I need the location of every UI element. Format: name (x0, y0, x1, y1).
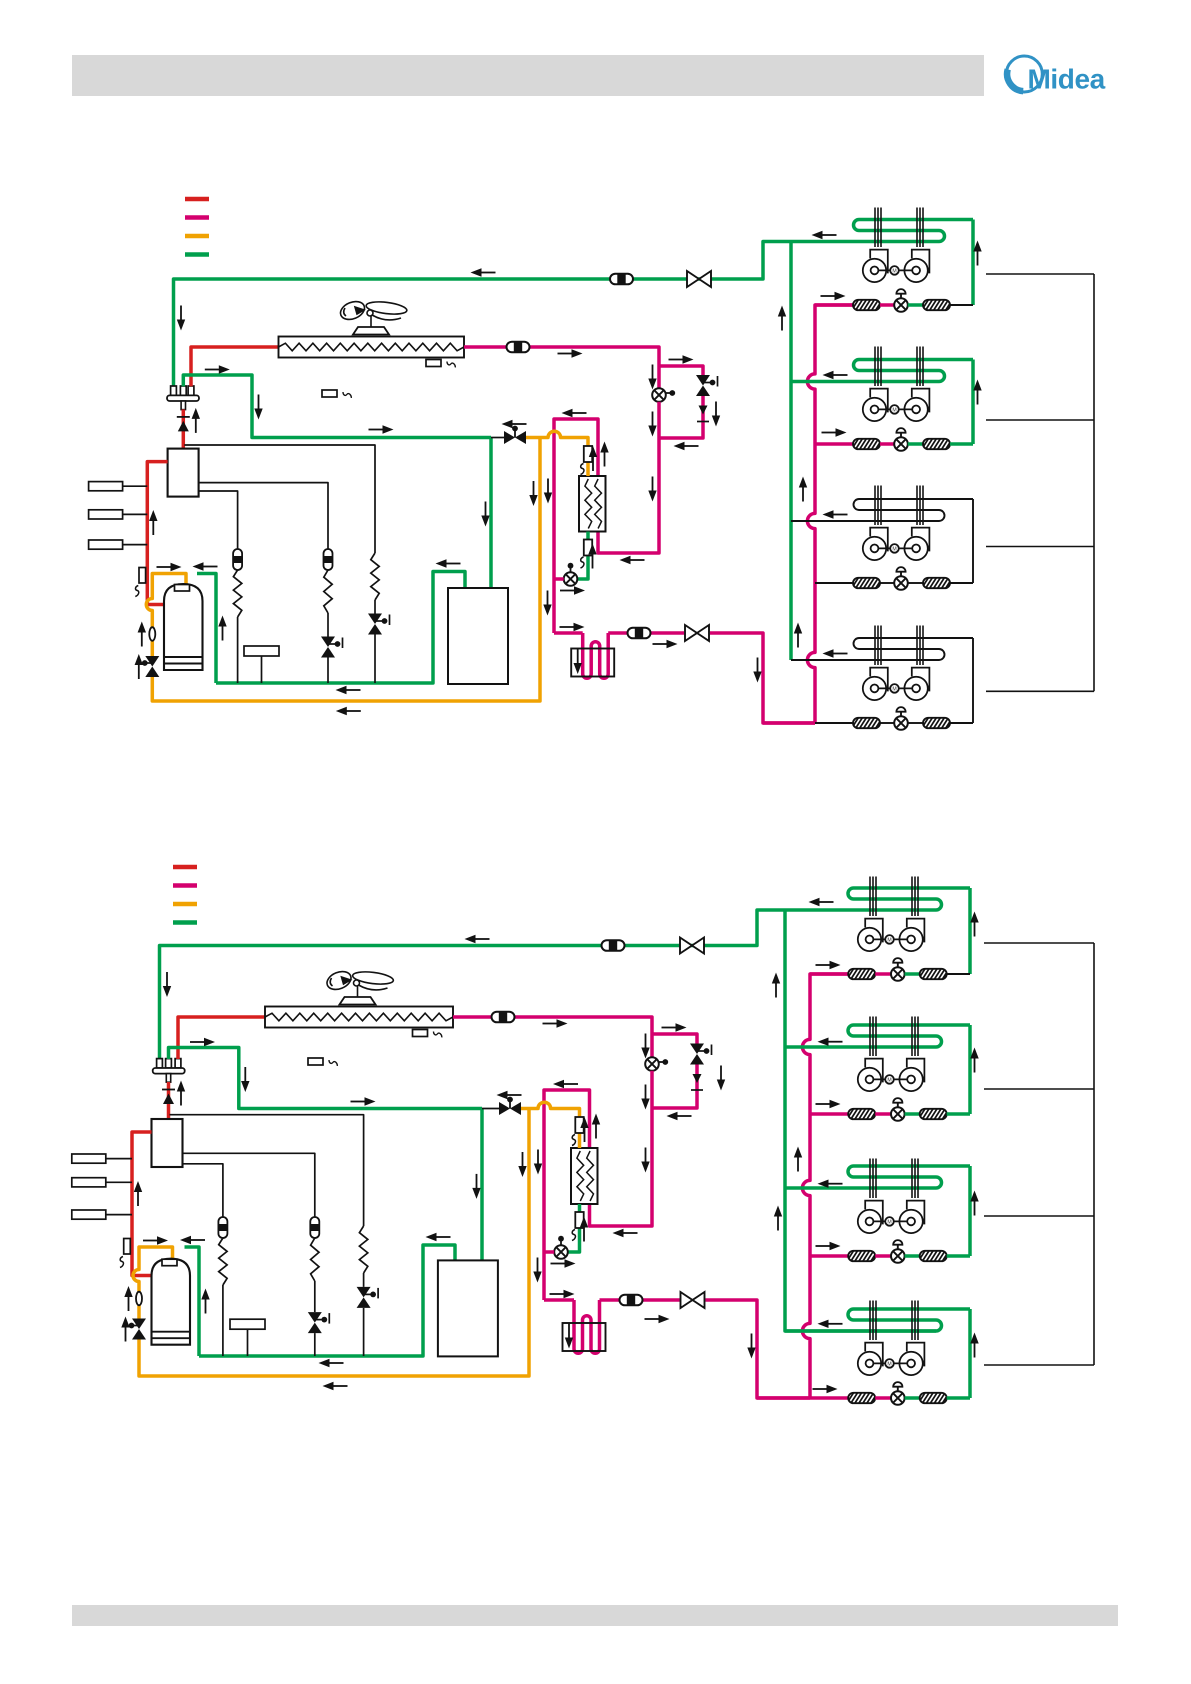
indoor unit 4 branch (815, 722, 853, 724)
wire orange tank (146, 438, 540, 702)
capillary 3 (371, 553, 379, 683)
arrow riser (772, 973, 780, 998)
arrow liquid down (747, 1334, 755, 1359)
wire green bus (199, 1245, 455, 1356)
EEV indoor 2 (894, 428, 908, 451)
indoor unit 4 riser (968, 1309, 972, 1398)
header bar (72, 55, 984, 96)
coil box arrow (574, 649, 582, 674)
wire eev out (598, 402, 659, 553)
oil separator (438, 1260, 498, 1356)
wire compressor left red (132, 1132, 152, 1276)
arrow orange up (589, 446, 597, 471)
EEV indoor 4 (891, 1382, 905, 1405)
wire bypass (652, 1034, 697, 1108)
arrow riser (794, 1147, 802, 1172)
indoor unit 1 shafts (870, 877, 918, 917)
wire discharge red (191, 347, 279, 386)
arrow g2 right (205, 365, 230, 373)
arrow ml down2 (533, 1258, 541, 1283)
arrow bypass right (669, 355, 694, 363)
sensor discharge (120, 1239, 130, 1268)
arrow unit right (822, 428, 847, 436)
arrow orange bus left (323, 1382, 348, 1390)
four-way valve (167, 386, 199, 410)
coil box (571, 649, 614, 677)
svg-text:M: M (892, 687, 896, 693)
arrow g2 down (241, 1067, 249, 1092)
arrow liquid right (543, 1019, 568, 1027)
indoor unit 3 riser (972, 499, 974, 583)
indoor unit 4 coil (791, 638, 973, 660)
arrow valve left (497, 1091, 522, 1099)
footer bar (72, 1605, 1118, 1626)
strainer 2b (918, 1109, 949, 1120)
indoor unit 1 shafts (875, 208, 923, 248)
arrow orange down (529, 481, 537, 506)
sensor condenser (413, 1030, 443, 1038)
wire comp line3 (199, 491, 238, 549)
arrow sep left (426, 1233, 451, 1241)
wire compressor left red (147, 462, 167, 605)
unit 4 boundary (986, 690, 1094, 692)
valve suction (680, 938, 704, 954)
arrow green tank left (193, 562, 218, 570)
indoor unit 2 fans (858, 1059, 925, 1092)
arrow liquid out right (550, 1290, 575, 1298)
indoor unit 4 link2 (905, 1396, 920, 1400)
sensor ambient (322, 390, 352, 398)
arrow green bus left (319, 1359, 344, 1367)
check valve arrow (163, 1094, 174, 1105)
indoor unit 1 link3 (947, 973, 970, 975)
filter green (581, 540, 593, 569)
indoor unit 3 shafts (875, 486, 923, 526)
pressure switch 1 (72, 1154, 132, 1163)
valve capillary 3 (368, 614, 390, 635)
wire comp line3 (183, 1164, 223, 1217)
sensor condenser (426, 360, 456, 368)
solenoid valve bypass (690, 1044, 712, 1065)
arrow sg right (645, 1315, 670, 1323)
valve tank drain (129, 1319, 146, 1340)
indoor unit 1 coil (854, 220, 974, 242)
arrow bypass left (674, 442, 699, 450)
valve capillary 2 (321, 637, 343, 658)
arrow sep left (436, 559, 461, 567)
unit 1 boundary (986, 273, 1094, 275)
wire comp line1 (170, 1115, 364, 1226)
indoor unit 1 fans (863, 250, 930, 282)
wire liquid out (544, 1300, 810, 1398)
arrow green tank left (180, 1236, 205, 1244)
wire eev2 magenta (554, 577, 564, 581)
wire green riser (785, 910, 936, 1331)
indoor unit 2 shafts (875, 347, 923, 387)
wire discharge red (178, 1017, 265, 1059)
arrow liquid down (753, 658, 761, 683)
wire magenta riser (807, 305, 853, 723)
bypass arrowhead (697, 406, 709, 422)
arrow bypass left (667, 1112, 692, 1120)
pressure switch 2 (89, 510, 148, 519)
indoor unit 4 link1 (880, 722, 894, 724)
oil plate (230, 1319, 265, 1356)
arrow filter up (588, 544, 596, 569)
indoor unit 3 link1 (880, 582, 894, 584)
wire liquid out (554, 633, 815, 723)
strainer 1b (918, 969, 949, 980)
indoor unit 3 fans (858, 1201, 925, 1234)
arrow unit up (973, 380, 981, 405)
diagram 2: heating mode piping (72, 867, 1094, 1405)
wire liquid magenta (464, 347, 659, 388)
valve tank drain (142, 656, 159, 677)
indoor unit 3 link2 (905, 1254, 920, 1258)
unit 1 boundary (984, 942, 1094, 944)
arrow sep down (481, 502, 489, 527)
arrow hx up (592, 1114, 600, 1139)
arrow comp red up (134, 1181, 142, 1206)
capillary sight 1 (218, 1217, 227, 1238)
arrow unit left (812, 231, 837, 239)
arrow unit right (821, 292, 846, 300)
sight glass suction (602, 940, 625, 951)
arrow riser (774, 1206, 782, 1231)
wire green service (169, 1048, 483, 1109)
indoor unit 1 link1 (880, 303, 894, 307)
arrow unit up (970, 1048, 978, 1073)
legend line orange (185, 234, 209, 239)
arrow unit left (818, 1180, 843, 1188)
unit 3 boundary (986, 546, 1094, 548)
compressor (152, 1119, 183, 1167)
capillary 1 (233, 570, 241, 683)
oil separator (448, 588, 508, 684)
strainer 1a (847, 969, 878, 980)
indoor unit 2 link3 (950, 442, 973, 446)
valve oil line (499, 1097, 521, 1115)
legend line green (185, 252, 209, 257)
arrow unit left (823, 510, 848, 518)
wire comp line2 (199, 483, 328, 549)
arrow bypass side (717, 1066, 725, 1091)
arrow riser (778, 306, 786, 331)
wire green sep drop (489, 438, 493, 589)
boundary frame (1093, 274, 1095, 691)
arrow service right (369, 425, 394, 433)
check tick (162, 1089, 175, 1091)
strainer 4a (847, 1393, 878, 1404)
arrow hx in left (613, 1229, 638, 1237)
oval sight (136, 1292, 142, 1306)
arrow unit right (816, 1100, 841, 1108)
svg-text:Midea: Midea (1028, 64, 1106, 95)
indoor unit 1 link2 (905, 972, 920, 976)
indoor unit 2 fans (863, 389, 930, 421)
indoor unit 2 link1 (880, 442, 894, 446)
strainer 1a (852, 300, 883, 311)
svg-text:M: M (887, 1362, 891, 1368)
arrow eev down (641, 1034, 649, 1059)
capillary sight 2 (324, 549, 333, 570)
valve capillary 2 (308, 1312, 330, 1333)
accumulator (164, 584, 203, 670)
svg-text:M: M (892, 547, 896, 553)
arrow liquid out right (560, 623, 585, 631)
arrow orange down (518, 1152, 526, 1177)
svg-text:M: M (892, 408, 896, 414)
wire eev out (590, 1071, 653, 1226)
check tick (177, 416, 190, 418)
indoor unit 3 coil (791, 499, 973, 521)
indoor unit 4 link1 (875, 1396, 891, 1400)
arrow filter up (580, 1217, 588, 1242)
sight glass liquid (628, 628, 651, 639)
arrow eev down (648, 365, 656, 390)
arrow unit left (818, 1038, 843, 1046)
unit 3 boundary (984, 1215, 1094, 1217)
arrow hx top left (553, 1080, 578, 1088)
arrow eev out down 2 (641, 1085, 649, 1110)
svg-text:M: M (887, 938, 891, 944)
arrow ml down2 (543, 591, 551, 616)
wire green bus (216, 572, 465, 684)
EEV indoor 2 (891, 1098, 905, 1121)
compressor (168, 449, 199, 497)
valve suction (687, 271, 711, 287)
arrow liquid right (558, 349, 583, 357)
four-way valve (153, 1059, 185, 1083)
indoor unit 4 fans (858, 1343, 925, 1376)
indoor unit 2 link2 (908, 442, 923, 446)
arrow riser (794, 623, 802, 648)
wire magenta riser (802, 974, 848, 1398)
strainer 1b (922, 300, 953, 311)
arrow eev out down (648, 477, 656, 502)
EEV indoor 3 (891, 1240, 905, 1263)
valve oil line (504, 426, 526, 444)
arrow suction left (465, 935, 490, 943)
arrow unit up (970, 1333, 978, 1358)
arrow unit up (973, 241, 981, 266)
indoor unit 3 fans (863, 528, 930, 561)
indoor unit 2 branch (810, 1112, 848, 1116)
arrow unit right (816, 1242, 841, 1250)
indoor unit 4 shafts (870, 1301, 918, 1341)
strainer 3a (852, 578, 883, 589)
valve capillary 3 (357, 1287, 379, 1308)
EEV subcooler (564, 563, 578, 586)
plate hx (571, 1148, 598, 1204)
indoor unit 4 link3 (947, 1396, 970, 1400)
indoor unit 2 coil (791, 360, 973, 382)
strainer 2a (847, 1109, 878, 1120)
indoor unit 2 shafts (870, 1017, 918, 1057)
strainer 2a (852, 439, 883, 450)
indoor unit 4 branch (810, 1396, 848, 1400)
arrow orange right (157, 563, 182, 571)
arrow service right (351, 1097, 376, 1105)
indoor unit 4 riser (972, 638, 974, 723)
arrow sg right (653, 640, 678, 648)
arrow sep down (472, 1174, 480, 1199)
valve liquid (685, 625, 709, 641)
indoor unit 3 link2 (908, 582, 923, 584)
accumulator (152, 1259, 191, 1345)
strainer 4b (922, 718, 953, 729)
arrow drain up (135, 654, 143, 679)
sensor discharge (135, 568, 145, 597)
wire eev2 magenta (544, 1250, 554, 1254)
capillary 2 (311, 1238, 319, 1356)
filter orange (572, 1117, 584, 1146)
coil box (563, 1323, 606, 1351)
Midea logo (1006, 56, 1105, 95)
EEV main (645, 1057, 668, 1071)
arrow orange right (143, 1236, 168, 1244)
wire hx green (577, 532, 588, 580)
arrow ml down1 (534, 1150, 542, 1175)
pressure switch 3 (72, 1210, 132, 1219)
arrow green up (218, 616, 226, 641)
arrow oval up (138, 622, 146, 647)
arrow suction left (471, 268, 496, 276)
wire suction main (160, 910, 937, 1059)
indoor unit 2 link3 (947, 1112, 970, 1116)
wire liquid feed (763, 721, 815, 725)
wire orange hx (521, 1102, 580, 1148)
condenser fan (324, 968, 394, 1004)
oval sight (149, 627, 155, 641)
wire green tank (194, 574, 216, 684)
svg-text:M: M (887, 1220, 891, 1226)
solenoid valve bypass (696, 375, 718, 396)
capillary 1 (219, 1238, 227, 1356)
arrow unit right (813, 1385, 838, 1393)
legend line red (173, 865, 197, 870)
indoor unit 4 coil (785, 1309, 970, 1331)
indoor unit 3 coil (785, 1166, 970, 1188)
legend line orange (173, 902, 197, 907)
arrow ml down1 (544, 479, 552, 504)
arrow hx in left (620, 556, 645, 564)
indoor unit 3 link1 (875, 1254, 891, 1258)
wire bypass (659, 366, 703, 438)
indoor unit 3 link3 (947, 1254, 970, 1258)
strainer 3a (847, 1251, 878, 1262)
oil plate (244, 646, 279, 683)
arrow bypass right (662, 1023, 687, 1031)
indoor unit 4 fans (863, 668, 930, 701)
arrow g2 down (254, 395, 262, 420)
indoor unit 3 link3 (950, 582, 973, 584)
arrow hx up (600, 442, 608, 467)
sight glass condenser out (492, 1012, 515, 1023)
wire comp line1 (184, 445, 375, 553)
indoor unit 4 link2 (908, 722, 923, 724)
indoor unit 4 shafts (875, 626, 923, 666)
arrow suction down (177, 306, 185, 331)
wire green riser (789, 242, 793, 661)
sensor ambient (308, 1058, 338, 1066)
EEV indoor 3 (894, 567, 908, 590)
arrow unit left (818, 1320, 843, 1328)
arrow unit right (816, 961, 841, 969)
wire green tank (182, 1247, 200, 1356)
arrow green bus left (336, 686, 361, 694)
wire hx top magenta (554, 419, 598, 633)
indoor unit 3 branch (815, 582, 853, 584)
valve liquid (681, 1292, 705, 1308)
wire hx green (568, 1204, 580, 1252)
arrow suction down (163, 972, 171, 997)
wire orange hx (526, 431, 588, 476)
wire black stub valve (491, 437, 504, 439)
indoor unit 1 branch (815, 303, 853, 307)
indoor unit 2 branch (815, 442, 853, 446)
bypass arrowhead (691, 1074, 703, 1090)
legend line red (185, 197, 209, 202)
arrow 4way up (177, 1081, 185, 1106)
condenser coil (265, 1007, 453, 1028)
capillary 3 (359, 1226, 367, 1356)
indoor unit 3 shafts (870, 1159, 918, 1199)
arrow oval up (124, 1286, 132, 1311)
filter green (572, 1212, 584, 1241)
arrow eev2 right (551, 1259, 576, 1267)
wire black stub valve (482, 1108, 499, 1110)
arrow valve left (502, 420, 527, 428)
arrow hx top left (562, 409, 587, 417)
legend line magenta (173, 883, 197, 888)
wire hx top magenta (544, 1090, 590, 1300)
plate hx (579, 476, 606, 532)
indoor unit 2 coil (785, 1025, 970, 1047)
indoor unit 1 coil (848, 888, 970, 910)
svg-text:M: M (892, 269, 896, 275)
boundary frame (1093, 943, 1095, 1365)
check valve arrow (178, 421, 189, 432)
EEV indoor 1 (891, 958, 905, 981)
wire orange tank (133, 1109, 529, 1377)
indoor unit 2 riser (968, 1025, 972, 1114)
indoor unit 1 link3 (950, 304, 973, 306)
EEV main (652, 388, 675, 402)
wire comp line2 (183, 1153, 315, 1217)
wire green service (183, 375, 491, 438)
sight glass condenser out (507, 342, 530, 353)
unit 2 boundary (986, 419, 1094, 421)
indoor unit 1 riser (971, 220, 975, 306)
indoor unit 2 riser (971, 360, 975, 445)
pressure switch 1 (89, 482, 148, 491)
arrow unit left (809, 898, 834, 906)
arrow g2 right (190, 1038, 215, 1046)
indoor unit 1 branch (810, 972, 848, 976)
legend line magenta (185, 215, 209, 220)
capillary 2 (324, 570, 332, 683)
wire green sep drop (480, 1109, 484, 1261)
svg-text:M: M (887, 1078, 891, 1084)
arrow 4way up (192, 408, 200, 433)
EEV indoor 4 (894, 707, 908, 730)
capillary sight 2 (310, 1217, 319, 1238)
sight glass liquid (620, 1295, 643, 1306)
arrow comp red up (149, 510, 157, 535)
unit 2 boundary (984, 1088, 1094, 1090)
strainer 2b (922, 439, 953, 450)
